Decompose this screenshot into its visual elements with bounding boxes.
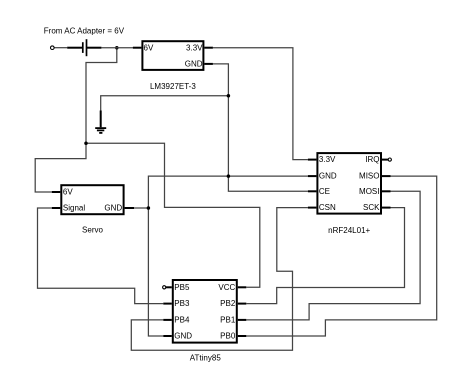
- svg-text:PB1: PB1: [220, 316, 236, 325]
- svg-text:Signal: Signal: [63, 204, 85, 213]
- svg-text:6V: 6V: [144, 43, 154, 52]
- svg-text:nRF24L01+: nRF24L01+: [328, 226, 370, 235]
- svg-text:GND: GND: [185, 60, 203, 69]
- svg-text:IRQ: IRQ: [365, 155, 379, 164]
- svg-text:3.3V: 3.3V: [186, 43, 203, 52]
- svg-text:PB0: PB0: [220, 332, 236, 341]
- svg-text:CSN: CSN: [319, 203, 336, 212]
- svg-text:6V: 6V: [63, 188, 73, 197]
- svg-text:VCC: VCC: [218, 283, 235, 292]
- svg-text:PB3: PB3: [174, 299, 190, 308]
- svg-text:GND: GND: [104, 204, 122, 213]
- svg-text:LM3927ET-3: LM3927ET-3: [150, 82, 196, 91]
- svg-text:MISO: MISO: [359, 172, 379, 181]
- svg-text:PB2: PB2: [220, 299, 236, 308]
- svg-text:PB4: PB4: [174, 316, 190, 325]
- svg-text:GND: GND: [174, 332, 192, 341]
- svg-text:CE: CE: [319, 187, 330, 196]
- svg-text:Servo: Servo: [82, 226, 103, 235]
- svg-text:ATtiny85: ATtiny85: [190, 354, 222, 363]
- svg-text:SCK: SCK: [363, 203, 380, 212]
- svg-text:From AC Adapter = 6V: From AC Adapter = 6V: [44, 27, 125, 36]
- svg-text:PB5: PB5: [174, 283, 190, 292]
- svg-text:GND: GND: [319, 172, 337, 181]
- svg-text:MOSI: MOSI: [359, 187, 379, 196]
- svg-text:3.3V: 3.3V: [319, 155, 336, 164]
